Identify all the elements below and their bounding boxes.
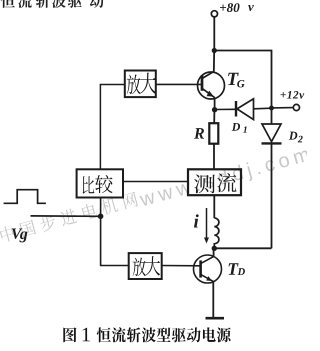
- inductor coil: [214, 218, 219, 248]
- resistor R: [209, 110, 218, 170]
- diode D1: [215, 99, 272, 120]
- label Vg: [12, 229, 27, 243]
- label TG: [228, 73, 245, 88]
- cut-off caption text fragment (top edge): [1, 0, 104, 8]
- wire 测流 to inductor: [213, 195, 215, 218]
- node D (Vg junction): [98, 214, 104, 220]
- current label i and arrow: [194, 208, 209, 244]
- node C (freewheel junction): [212, 246, 217, 251]
- Vg pulse waveform: [4, 190, 46, 204]
- transistor TD: [194, 248, 222, 283]
- wire 放大 left to 比较 top: [100, 85, 124, 170]
- wire 比较 to 测流: [123, 181, 188, 183]
- ground: [206, 317, 225, 320]
- comparator box 比较: [77, 169, 123, 197]
- watermark 中国步进电机网 www.sddj.com: [0, 144, 311, 249]
- label D2: [289, 132, 303, 143]
- wire 放大 to TG base: [156, 83, 202, 85]
- amplifier box 放大 (lower): [129, 253, 162, 279]
- wire node A to right rail top: [214, 51, 271, 108]
- node B (TG emitter junction): [212, 97, 217, 112]
- label D1: [232, 123, 247, 133]
- right rail wire (D2 to freewheel node): [271, 143, 273, 248]
- transistor TG: [198, 51, 225, 99]
- node A junction dot: [212, 48, 217, 53]
- amplifier box 放大 (upper): [125, 71, 156, 98]
- wire TD emitter to ground: [212, 281, 214, 317]
- label R: [194, 128, 204, 138]
- caption 图1 恒流斩波型驱动电源: [63, 327, 230, 342]
- Vg input line: [31, 215, 101, 217]
- wire lower 放大 to TD base: [162, 265, 201, 267]
- diode D2: [262, 108, 282, 143]
- label TD: [229, 263, 245, 275]
- wire node C to right rail: [214, 247, 271, 249]
- terminal +12V: [269, 91, 304, 111]
- vertical wire 比较 bottom to lower 放大: [101, 198, 129, 266]
- terminal +80V: [211, 3, 254, 17]
- wire +80V to node A: [213, 17, 215, 51]
- current sensor box 测流: [188, 169, 241, 195]
